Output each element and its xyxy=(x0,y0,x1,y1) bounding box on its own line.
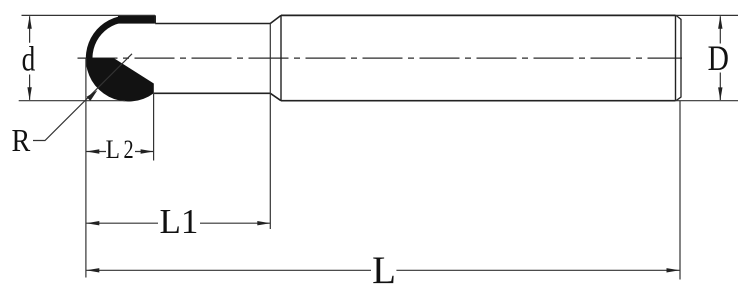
D top extension line xyxy=(676,14,739,16)
L1 left arrow xyxy=(86,221,99,225)
d top extension line xyxy=(22,14,156,16)
D dimension line xyxy=(719,16,721,100)
L2 right arrow xyxy=(141,149,154,153)
D bottom extension line xyxy=(676,100,739,102)
L right extension line xyxy=(679,101,681,280)
taper diagonals xyxy=(270,15,281,100)
d arrow up xyxy=(27,16,31,29)
left shared extension line xyxy=(85,58,87,278)
ball lower flute mass xyxy=(86,58,154,101)
shank bottom line xyxy=(281,100,676,102)
body bottom line xyxy=(154,92,270,94)
L dimension line xyxy=(86,269,679,271)
shank end face xyxy=(675,15,677,100)
L left arrow xyxy=(86,268,99,272)
L1 right extension line xyxy=(269,24,271,230)
svg-text:D: D xyxy=(708,39,729,78)
body top line xyxy=(155,23,270,25)
L1 dimension line xyxy=(86,222,270,224)
svg-text:L: L xyxy=(372,249,396,292)
d bottom extension line xyxy=(19,100,125,102)
L2 left arrow xyxy=(86,149,99,153)
svg-text:2: 2 xyxy=(124,136,134,165)
svg-text:L: L xyxy=(106,136,120,164)
L1 right arrow xyxy=(257,221,270,225)
shank end chamfer xyxy=(676,15,681,100)
d arrow down xyxy=(27,87,31,100)
L2 dimension line xyxy=(86,151,153,153)
flute top band xyxy=(118,15,155,23)
svg-text:R: R xyxy=(12,122,32,158)
centerline xyxy=(78,57,683,59)
D arrow up xyxy=(718,16,722,29)
R leader arrowhead xyxy=(87,90,98,101)
taper vertical xyxy=(280,15,282,100)
ball crescent xyxy=(86,15,129,72)
R leader line xyxy=(33,54,132,141)
band right edge xyxy=(154,15,156,23)
D arrow down xyxy=(718,87,722,100)
svg-text:d: d xyxy=(22,39,36,78)
svg-text:L1: L1 xyxy=(160,202,199,241)
L2 right extension line xyxy=(153,94,155,161)
L right arrow xyxy=(667,268,680,272)
d dimension line xyxy=(29,16,31,100)
shank top line xyxy=(281,14,676,16)
